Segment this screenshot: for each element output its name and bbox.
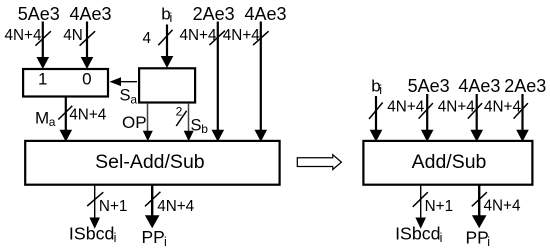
wire 5Ae3 to Add/Sub xyxy=(421,94,434,142)
svg-text:4Ae3: 4Ae3 xyxy=(458,76,500,96)
svg-text:5Ae3: 5Ae3 xyxy=(408,76,450,96)
svg-text:4N+4: 4N+4 xyxy=(157,198,194,215)
slash xyxy=(419,103,433,119)
implication arrow xyxy=(297,155,341,170)
svg-text:2Ae3: 2Ae3 xyxy=(504,76,546,96)
svg-text:i: i xyxy=(114,231,117,245)
svg-text:PP: PP xyxy=(142,227,165,247)
svg-text:Add/Sub: Add/Sub xyxy=(412,151,487,173)
slash xyxy=(87,192,103,206)
wire OP control to Sel-Add/Sub xyxy=(143,104,153,142)
svg-text:N+1: N+1 xyxy=(425,198,454,215)
svg-text:PP: PP xyxy=(466,227,489,247)
svg-text:4N: 4N xyxy=(63,27,83,44)
svg-text:b: b xyxy=(201,122,208,136)
svg-text:M: M xyxy=(35,108,49,127)
slash xyxy=(35,31,51,46)
svg-text:4N+4: 4N+4 xyxy=(484,198,521,215)
box Add/Sub xyxy=(363,141,532,185)
svg-text:4N+4: 4N+4 xyxy=(387,99,424,116)
wire 4Ae3 to mux xyxy=(81,22,94,70)
wire 5Ae3 to mux xyxy=(37,22,50,70)
label b_i xyxy=(161,5,172,26)
svg-text:2: 2 xyxy=(176,105,183,119)
svg-text:a: a xyxy=(49,115,56,129)
wire 2Ae3 to Sel-Add/Sub xyxy=(212,22,225,142)
wire b_i to control box xyxy=(161,25,174,69)
wire 4Ae3 to Sel-Add/Sub xyxy=(255,22,268,142)
control box U1 xyxy=(139,68,195,102)
svg-text:5Ae3: 5Ae3 xyxy=(18,4,60,24)
wire Sa control to mux xyxy=(110,77,138,86)
svg-text:4Ae3: 4Ae3 xyxy=(69,4,111,24)
label ISbcd_i right xyxy=(395,224,442,245)
slash xyxy=(176,111,186,126)
slash xyxy=(413,192,428,207)
svg-text:4N+4: 4N+4 xyxy=(5,27,42,44)
svg-text:4N+4: 4N+4 xyxy=(223,27,260,44)
label PP_i xyxy=(142,227,167,249)
slash xyxy=(80,31,96,46)
svg-text:ISbcd: ISbcd xyxy=(395,224,440,244)
wire PP out xyxy=(145,186,160,229)
svg-text:4N+4: 4N+4 xyxy=(69,107,106,124)
svg-text:i: i xyxy=(164,235,167,249)
wire ISbcd out right xyxy=(415,186,426,229)
svg-text:i: i xyxy=(440,231,443,245)
wire Ma mux to Sel-Add/Sub xyxy=(60,98,73,142)
svg-text:N+1: N+1 xyxy=(99,198,128,215)
svg-text:1: 1 xyxy=(38,69,47,88)
slash xyxy=(253,31,269,45)
box Sel-Add/Sub xyxy=(25,141,279,185)
slash xyxy=(209,31,225,45)
label PP_i right xyxy=(466,227,490,249)
wire 4Ae3 to Add/Sub xyxy=(470,94,483,142)
svg-text:0: 0 xyxy=(82,69,91,88)
label b_i right xyxy=(371,77,382,98)
slash xyxy=(514,103,528,119)
svg-text:i: i xyxy=(487,235,490,249)
svg-text:2Ae3: 2Ae3 xyxy=(193,4,235,24)
wire PP out right xyxy=(472,186,487,229)
slash xyxy=(58,106,72,120)
svg-text:a: a xyxy=(130,93,137,107)
slash xyxy=(145,192,160,207)
svg-text:4N+4: 4N+4 xyxy=(180,27,217,44)
svg-text:4N+4: 4N+4 xyxy=(484,99,521,116)
svg-text:4: 4 xyxy=(142,30,151,47)
svg-text:Sel-Add/Sub: Sel-Add/Sub xyxy=(95,151,205,173)
slash xyxy=(472,192,487,206)
label Ma xyxy=(35,108,56,129)
label Sa xyxy=(120,87,138,107)
wire 2Ae3 to Add/Sub xyxy=(516,94,529,142)
svg-text:4N+4: 4N+4 xyxy=(438,99,475,116)
wire b_i to Add/Sub xyxy=(370,96,383,142)
slash xyxy=(468,103,482,119)
mux M1 xyxy=(23,69,108,97)
wire ISbcd out xyxy=(89,186,100,229)
svg-text:4Ae3: 4Ae3 xyxy=(244,4,286,24)
svg-text:i: i xyxy=(379,83,382,97)
wire Sb control to Sel-Add/Sub xyxy=(184,104,194,142)
slash xyxy=(158,30,172,46)
svg-text:OP: OP xyxy=(122,113,147,132)
label Sb xyxy=(191,116,209,136)
slash xyxy=(369,103,383,120)
label ISbcd_i xyxy=(69,224,116,245)
svg-text:S: S xyxy=(120,87,131,105)
svg-text:i: i xyxy=(170,11,173,25)
svg-text:ISbcd: ISbcd xyxy=(69,224,114,244)
